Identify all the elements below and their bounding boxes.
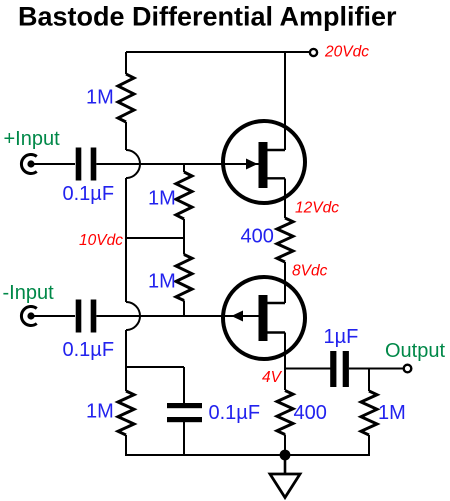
wire +input to cap [31, 163, 75, 165]
svg-text:1M: 1M [148, 188, 176, 210]
svg-text:1M: 1M [378, 402, 406, 424]
wire bypass cap to rail [183, 422, 185, 455]
svg-text:0.1µF: 0.1µF [63, 339, 115, 361]
svg-text:1M: 1M [86, 87, 114, 109]
wire left vertical to hop1 [125, 122, 127, 150]
wire 10V node horizontal [126, 237, 184, 239]
svg-text:8Vdc: 8Vdc [292, 263, 328, 280]
svg-text:-Input: -Input [3, 282, 55, 304]
JFET Q1 [223, 121, 305, 203]
resistor 1M output [361, 391, 377, 435]
svg-text:1M: 1M [86, 401, 114, 423]
svg-text:0.1µF: 0.1µF [209, 402, 261, 424]
svg-text:400: 400 [294, 402, 327, 424]
capacitor 0.1uF -input [76, 300, 82, 333]
terminal 20Vdc [310, 49, 317, 56]
wire bottom rail [125, 454, 370, 456]
ground [270, 474, 300, 498]
wire resistor to bottom rail [125, 435, 127, 455]
svg-text:1µF: 1µF [324, 326, 359, 348]
svg-text:12Vdc: 12Vdc [295, 200, 339, 217]
wire Q2 source down to 4V node [284, 333, 286, 391]
wire -input to cap [31, 315, 75, 317]
resistor 1M top-left [118, 74, 134, 122]
wire cap to output terminal [349, 368, 404, 370]
capacitor 0.1uF bypass [167, 403, 202, 408]
svg-text:+Input: +Input [4, 128, 61, 150]
svg-text:20Vdc: 20Vdc [324, 44, 369, 61]
wire output tee down to 1M [368, 369, 370, 392]
wire cap to Q1 gate [96, 163, 258, 165]
wire 400 to Q2 drain [284, 262, 286, 303]
wire hop over +input [126, 150, 140, 178]
svg-text:Bastode Differential Amplifier: Bastode Differential Amplifier [18, 2, 397, 32]
junction dot ground [280, 450, 291, 461]
resistor 400 lower [277, 391, 293, 435]
wire Q1 source down [284, 179, 286, 219]
svg-text:Output: Output [385, 340, 445, 362]
wire Q1 drain up to rail [284, 52, 286, 150]
wire left vertical lower [125, 330, 127, 391]
wire mid-lower resistor to gate wire [183, 301, 185, 317]
wire left vertical between hops [125, 178, 127, 302]
wire to ground [284, 455, 287, 474]
wire tee to bypass cap [126, 366, 184, 368]
wire down to bypass cap [183, 367, 185, 405]
wire left vertical upper [125, 52, 127, 74]
resistor 400 upper [277, 218, 293, 262]
svg-text:0.1µF: 0.1µF [63, 183, 115, 205]
wire hop over -input [126, 302, 140, 330]
wire cap to Q2 gate [96, 315, 258, 317]
svg-text:10Vdc: 10Vdc [79, 232, 123, 249]
wire 1M to bottom rail [368, 435, 370, 456]
wire top rail [126, 51, 310, 53]
svg-text:400: 400 [241, 225, 274, 247]
JFET Q2 [223, 277, 305, 359]
resistor 1M mid-lower [176, 255, 192, 301]
capacitor 1uF output [330, 351, 336, 387]
wire 4V node to output cap [285, 368, 331, 370]
resistor 1M bottom-left [118, 391, 134, 435]
resistor 1M mid-upper [176, 172, 192, 219]
wire stub to mid resistor [183, 164, 185, 172]
wire 400 to ground node [284, 435, 286, 456]
terminal +Input [21, 155, 36, 174]
svg-text:1M: 1M [148, 271, 176, 293]
capacitor 0.1uF +input [76, 148, 82, 181]
wire mid resistor to 10V node [183, 219, 185, 255]
terminal -Input [21, 307, 36, 326]
svg-text:4V: 4V [262, 369, 283, 386]
terminal Output [404, 365, 412, 373]
